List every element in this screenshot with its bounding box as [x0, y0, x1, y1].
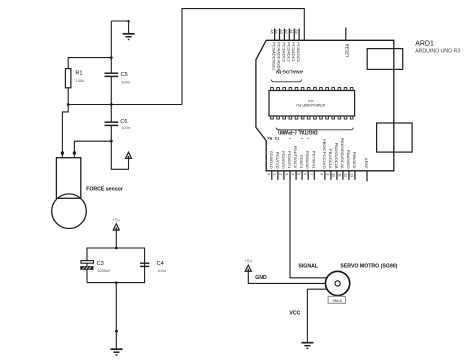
svg-text:+5V: +5V: [112, 217, 121, 222]
arduino pin 2 (PD2/INT0): [279, 151, 286, 180]
ARD1 reference label: [415, 41, 460, 55]
svg-text:1: 1: [273, 173, 277, 175]
svg-text:ANALOG IN: ANALOG IN: [276, 69, 303, 75]
wire R1 top to C5 node: [68, 58, 111, 69]
TX label: [274, 136, 279, 140]
svg-text:PC3/ADC3: PC3/ADC3: [281, 42, 286, 62]
svg-text:ARD1: ARD1: [415, 41, 434, 48]
svg-text:100n: 100n: [121, 79, 130, 84]
svg-text:2: 2: [279, 173, 283, 175]
svg-text:C5: C5: [121, 72, 128, 78]
junction ground net: [115, 330, 118, 333]
svg-text:+86.8: +86.8: [332, 299, 342, 303]
svg-text:~: ~: [289, 136, 292, 141]
svg-text:TX: TX: [274, 136, 279, 140]
arduino power jack: [377, 123, 413, 152]
svg-text:AREF: AREF: [364, 158, 369, 169]
arduino pin RESET: [344, 28, 349, 59]
svg-text:PB4/MISO: PB4/MISO: [346, 150, 351, 169]
svg-text:C4: C4: [157, 261, 164, 267]
svg-text:PD4/T0/XCK: PD4/T0/XCK: [293, 146, 298, 169]
wire C3/C4 loop: [87, 248, 145, 283]
svg-text:A1: A1: [289, 29, 293, 33]
ground G3 (servo): [301, 343, 313, 349]
svg-text:6: 6: [303, 173, 307, 175]
svg-text:1000uF: 1000uF: [97, 268, 111, 273]
svg-text:SIGNAL: SIGNAL: [298, 263, 318, 269]
arduino pin A4 (PC4/ADC4/SDA): [274, 29, 281, 72]
svg-text:PB2/SS/OC1B: PB2/SS/OC1B: [334, 143, 339, 169]
svg-text:5: 5: [297, 173, 301, 175]
arduino pin A3 (PC3/ADC3): [279, 29, 286, 63]
arduino USB connector: [367, 49, 403, 70]
arduino pin 10 (PB2/SS/OC1B): [332, 143, 339, 180]
arduino pin A0 (PC0/ADC0): [294, 29, 301, 63]
svg-text:PD5/T1: PD5/T1: [299, 155, 304, 169]
svg-text:A2: A2: [284, 29, 288, 33]
svg-text:100n: 100n: [121, 125, 130, 130]
junction loop bottom: [115, 281, 118, 284]
arduino ARD1 body: [256, 40, 394, 171]
svg-text:A3: A3: [279, 29, 283, 33]
svg-text:PB3/MOSI/OC2A: PB3/MOSI/OC2A: [340, 138, 345, 169]
force sensor FS1: [52, 153, 123, 229]
arduino pin A2 (PC2/ADC2): [284, 29, 291, 63]
+5V power flag (C3/C4): [112, 217, 121, 230]
svg-text:PC0/ADC0: PC0/ADC0: [296, 42, 301, 62]
ANALOG IN section label: [271, 69, 303, 82]
svg-text:4: 4: [291, 173, 295, 175]
svg-text:1121: 1121: [307, 99, 313, 103]
arduino pin 3 (PD3/INT1): [285, 151, 292, 180]
svg-text:+5V: +5V: [244, 259, 253, 264]
svg-text:PD7/AIN1: PD7/AIN1: [311, 151, 316, 170]
GND net label: [255, 275, 267, 281]
wire SIGNAL (PD3 to servo): [290, 171, 327, 278]
wire C5 vertical lead: [110, 21, 112, 73]
wire +5V to loop: [115, 230, 117, 248]
DIGITAL (~PWM) section label: [276, 128, 354, 135]
PWM tilde mark: [301, 136, 304, 141]
ground G1 (top left): [123, 34, 135, 40]
wire C5 top to ground: [111, 21, 128, 34]
arduino pin 9 (PB1/OC1A): [326, 149, 333, 180]
svg-text:A4: A4: [274, 29, 278, 33]
arduino pin 7 (PD7/AIN1): [309, 151, 316, 180]
arduino pin 0 (PD0/RXD): [266, 151, 273, 180]
+5V power flag (servo): [244, 259, 253, 272]
arduino pin 12 (PB4/MISO): [344, 150, 351, 180]
svg-text:100n: 100n: [157, 268, 166, 273]
junction loop top: [115, 247, 118, 250]
junction R1/C5 top node: [110, 56, 113, 59]
wire net VOUT horizontal: [68, 104, 182, 106]
svg-text:PD1/TXD: PD1/TXD: [275, 152, 280, 169]
capacitor C5: [105, 72, 131, 84]
wire net VOUT to pin A0: [182, 9, 304, 105]
svg-text:RESET: RESET: [344, 44, 349, 58]
svg-text:13: 13: [350, 173, 354, 177]
svg-text:11: 11: [338, 173, 342, 177]
svg-text:~: ~: [307, 136, 310, 141]
svg-text:PB5/SCK: PB5/SCK: [352, 152, 357, 169]
arduino pin 8 (PB0/ICP1/CLKO): [320, 139, 327, 180]
power terminal (sensor bias): [125, 152, 131, 158]
svg-text:PB1/OC1A: PB1/OC1A: [328, 149, 333, 169]
svg-text:PC1/ADC1: PC1/ADC1: [291, 42, 296, 62]
junction C5/C6 node: [110, 103, 113, 106]
svg-text:~: ~: [301, 136, 304, 141]
RX label: [267, 136, 273, 140]
wire sensor right terminal to C6 bottom: [74, 141, 111, 153]
servo angle readout: [328, 296, 345, 303]
svg-text:R1: R1: [75, 71, 82, 77]
svg-text:100k: 100k: [76, 78, 85, 83]
arduino pin 13 (PB5/SCK): [350, 152, 357, 180]
wire C5 bottom lead: [110, 76, 112, 104]
svg-text:PC2/ADC2: PC2/ADC2: [286, 42, 291, 62]
svg-text:9: 9: [326, 173, 330, 175]
arduino pin A1 (PC1/ADC1): [289, 29, 296, 63]
svg-text:12: 12: [344, 173, 348, 177]
capacitor C3 (electrolytic): [81, 261, 112, 273]
PWM tilde mark: [289, 136, 292, 141]
svg-text:PC4/ADC4/SDA: PC4/ADC4/SDA: [277, 42, 282, 71]
svg-text:RX: RX: [267, 136, 273, 140]
arduino pin A5 (PC5/ADC5/SCL): [269, 29, 276, 72]
SIGNAL net label: [298, 263, 318, 269]
servo motor M1 (SG90): [326, 263, 398, 295]
svg-text:C3: C3: [97, 261, 104, 267]
terminal sensor pin 2: [73, 151, 76, 154]
svg-text:PD0/RXD: PD0/RXD: [269, 151, 274, 168]
capacitor C6: [105, 105, 131, 142]
wire to sensor left terminal: [62, 105, 68, 154]
svg-text:PB0/ICP1/CLKO: PB0/ICP1/CLKO: [322, 139, 327, 169]
PWM tilde mark: [307, 136, 310, 141]
wire GND (flag to servo): [248, 271, 325, 283]
VCC net label: [289, 310, 300, 316]
wire R1 bottom lead: [67, 88, 69, 105]
junction top-left corner: [127, 20, 129, 22]
svg-text:GND: GND: [255, 275, 267, 281]
wire loop to ground: [115, 283, 117, 350]
wire VCC (servo to ground): [307, 289, 327, 343]
svg-text:A5: A5: [269, 29, 273, 33]
IC U1 ATMEGA328P-PU: [269, 88, 355, 120]
svg-text:ATMEGA328P-PU: ATMEGA328P-PU: [296, 103, 325, 107]
capacitor C4: [140, 261, 166, 273]
svg-text:7: 7: [309, 173, 313, 175]
svg-text:3: 3: [285, 173, 289, 175]
svg-text:FORCE sensor: FORCE sensor: [86, 187, 123, 193]
svg-text:8: 8: [320, 173, 324, 175]
resistor R1: [65, 69, 84, 88]
arduino pin 5 (PD5/T1): [297, 155, 304, 180]
arduino pin 6 (PD6/AIN0): [303, 151, 310, 180]
wire C6 node to power terminal: [111, 141, 128, 169]
svg-text:10: 10: [332, 173, 336, 177]
svg-text:PD3/INT1: PD3/INT1: [287, 151, 292, 169]
svg-text:PD6/AIN0: PD6/AIN0: [305, 151, 310, 170]
arduino pin 4 (PD4/T0/XCK): [291, 146, 298, 180]
ground G2 (C3/C4): [111, 349, 123, 355]
svg-text:ARDUINO UNO R3: ARDUINO UNO R3: [415, 49, 460, 55]
junction R1 bottom: [67, 103, 70, 106]
svg-text:VCC: VCC: [289, 310, 300, 316]
svg-text:PC5/ADC5/SCL: PC5/ADC5/SCL: [272, 42, 277, 71]
svg-text:PD2/INT0: PD2/INT0: [281, 151, 286, 169]
terminal sensor pin 1: [61, 151, 64, 154]
svg-text:SERVO MOTRO (SG90): SERVO MOTRO (SG90): [340, 263, 397, 269]
svg-text:0: 0: [266, 173, 270, 175]
arduino pin 11 (PB3/MOSI/OC2A): [338, 138, 345, 180]
arduino pin 1 (PD1/TXD): [273, 152, 280, 180]
arduino pin AREF: [364, 158, 369, 181]
junction C6 bottom node: [110, 140, 113, 143]
svg-text:A0: A0: [294, 29, 298, 33]
